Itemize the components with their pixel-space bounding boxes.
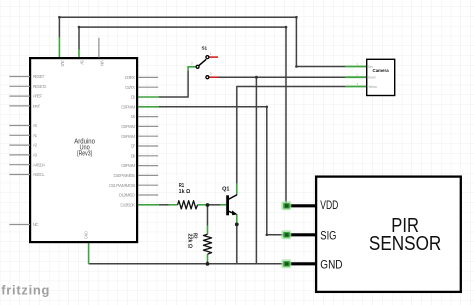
svg-text:GND: GND [84,231,89,239]
wire Q1 collector to camera Yellow [237,87,345,184]
green lead R1 right [198,204,208,206]
svg-text:RESET: RESET [33,74,45,79]
junction node R2 bottom / ground [206,262,210,266]
pin D6 PWM [138,135,158,137]
green lead Q1 emitter [236,214,238,222]
wire ground rail [89,263,283,265]
svg-text:VDD: VDD [320,200,338,212]
green lead R1 left [169,204,178,206]
green pin GND [88,243,90,264]
svg-text:D5 PWM: D5 PWM [121,124,135,129]
wire Q1 emitter down [236,223,238,264]
green pin 3V3 [58,37,60,57]
svg-text:Q1: Q1 [222,186,229,192]
green pin D13 [138,204,159,206]
svg-text:fritzing: fritzing [1,282,50,297]
pin D5 PWM [138,125,158,127]
pin D10 PWM/SS [138,174,158,176]
svg-text:SENSOR: SENSOR [369,233,441,255]
svg-text:A4/SDA: A4/SDA [33,162,46,167]
svg-text:D3 PWM: D3 PWM [121,104,135,109]
arduino left pin labels [33,74,47,227]
green pin D3 [138,106,159,108]
svg-text:A0: A0 [33,123,38,128]
wire R2 bottom to ground rail [207,261,209,264]
wire 5V to PIR VDD [79,27,286,202]
svg-text:2: 2 [191,62,193,66]
switch S1 lever [199,59,206,65]
svg-text:D8: D8 [131,153,136,158]
svg-text:3: 3 [210,72,212,76]
bend dot D3 corner [266,106,269,109]
arduino right unconnected pins [99,38,158,195]
svg-text:D1/TX: D1/TX [125,85,135,90]
green pin 5V [78,49,80,57]
svg-text:A3: A3 [33,153,38,158]
PIR pin stub VDD [286,204,317,207]
transistor Q1 collector diagonal [229,195,237,200]
transistor Q1 emitter arrow [232,210,237,215]
pin A4/SDA [9,164,30,166]
arduino right pin labels [109,75,135,207]
bend dot 3V3 camera corner [295,65,298,68]
pin ioref [9,105,30,107]
svg-text:R1: R1 [179,183,185,189]
svg-text:VIN: VIN [99,60,104,66]
pin D9 PWM [138,165,158,167]
wire R1 to Q1 base [208,204,220,206]
svg-text:RESET2: RESET2 [33,84,47,89]
junction node R1/R2/base [206,203,210,207]
pin A1 [9,134,30,136]
svg-text:D12/MISO: D12/MISO [119,193,136,198]
pin RESET [9,76,30,78]
svg-text:D6 PWM: D6 PWM [121,134,135,139]
pin A5/SCL [9,174,30,176]
green lead R2 bottom [207,254,209,261]
arduino left pins [9,77,30,225]
pin RESET2 [9,85,30,87]
green lead R2 top [207,226,209,235]
transistor Q1 emitter diagonal [229,211,234,213]
resistor R1 zigzag [178,201,198,209]
svg-text:3V3: 3V3 [60,60,65,67]
svg-text:D0/RX: D0/RX [125,75,135,80]
PIR pad GND [281,259,291,268]
wire switch throw to camera Brown [218,76,345,78]
green lead camera Yellow [345,86,367,88]
transistor Q1 bar [226,195,229,215]
svg-text:Brown: Brown [368,76,376,80]
wire D13 to R1 [159,204,169,206]
PIR sensor box [316,177,461,292]
svg-text:1: 1 [210,52,212,56]
svg-text:Camera: Camera [373,68,390,73]
pin A0 [9,125,30,127]
pin D12/MISO [138,194,158,196]
wire 3V3 to camera Red [59,17,345,66]
svg-text:A5/SCL: A5/SCL [33,172,46,177]
svg-text:GND: GND [320,259,342,271]
pin N/C [9,224,30,226]
bend dot 3V3 top right [295,16,298,19]
pin AREF [9,95,30,97]
svg-text:D7: D7 [131,144,136,149]
svg-text:S1: S1 [201,46,207,52]
svg-text:N/C: N/C [33,222,40,227]
arduino U1 box [30,58,137,242]
wire node to R2 top [207,206,209,226]
green lead camera Brown [345,76,367,78]
PIR pad SIG [281,230,291,239]
pin D0/RX [138,76,158,78]
camera U2 box [367,59,395,95]
switch S1 red lead bottom [209,76,218,78]
svg-text:AREF: AREF [33,94,43,99]
bend dot 5V right corner [285,26,288,29]
green lead camera Red [345,66,367,68]
pin D7 [138,145,158,147]
svg-text:ioref: ioref [33,104,41,109]
bend dot 5V corner [78,26,81,29]
PIR pin stub SIG [286,233,317,236]
svg-text:SIG: SIG [320,231,336,243]
svg-text:5V: 5V [80,60,85,64]
svg-text:D4: D4 [131,114,136,119]
switch S1 common terminal [196,65,199,68]
PIR pad VDD [281,201,291,210]
wire switch node to ground rail [255,77,257,264]
pin A2 [9,144,30,146]
junction node emitter bend [235,223,239,227]
pin D1/TX [138,86,158,88]
pin VIN [98,38,100,58]
bend dot SIG corner [266,234,269,237]
svg-text:A2: A2 [33,143,38,148]
arduino top pin labels [60,60,105,67]
svg-text:D11 PWM/MOSI: D11 PWM/MOSI [109,183,135,188]
green pin D2 [138,96,159,98]
pin A3 [9,154,30,156]
resistor R2 zigzag [203,234,211,254]
pin D11 PWM/MOSI [138,184,158,186]
switch S1 red lead top [209,56,218,58]
wire D3 to PIR SIG [159,107,283,235]
svg-text:Red: Red [368,65,373,69]
bend dot 3V3 corner [58,16,61,19]
svg-text:D9 PWM: D9 PWM [121,163,135,168]
svg-text:D2: D2 [131,95,136,100]
switch S1 terminal top [206,56,209,59]
PIR pin stub GND [286,262,317,265]
svg-text:A1: A1 [33,133,38,138]
switch S1 terminal bottom [206,76,209,79]
wire D2 to switch common [159,71,188,97]
svg-text:(Rev3): (Rev3) [77,150,93,157]
junction node switch/brown tee [255,76,258,79]
green lead switch common [188,67,196,71]
pin D8 [138,155,158,157]
svg-text:22k Ω: 22k Ω [186,234,192,249]
svg-text:Yellow: Yellow [368,85,377,89]
pin D4 [138,116,158,118]
svg-text:D13/SCK: D13/SCK [120,202,135,207]
green lead Q1 collector [236,183,238,194]
svg-text:D10 PWM/SS: D10 PWM/SS [114,173,136,178]
green lead Q1 base [220,204,226,206]
svg-text:1k Ω: 1k Ω [179,189,191,195]
